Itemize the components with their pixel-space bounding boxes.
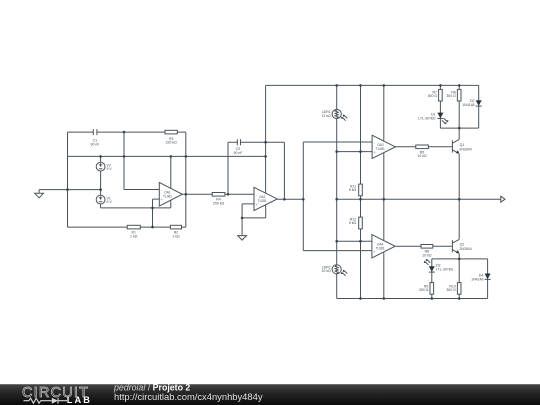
svg-text:-: - — [161, 188, 162, 192]
svg-text:+: + — [374, 151, 376, 155]
svg-text:2N3904: 2N3904 — [459, 247, 471, 251]
svg-text:300 Ω: 300 Ω — [419, 288, 429, 292]
svg-text:TL081: TL081 — [376, 147, 385, 151]
svg-text:+: + — [161, 198, 163, 202]
svg-text:LTL-307EE: LTL-307EE — [436, 267, 454, 271]
svg-text:TL081: TL081 — [163, 194, 172, 198]
svg-text:12 kΩ: 12 kΩ — [321, 114, 331, 118]
svg-text:TL081: TL081 — [376, 246, 385, 250]
svg-text:250 kΩ: 250 kΩ — [213, 201, 225, 205]
svg-text:-: - — [256, 193, 257, 197]
svg-text:9 V: 9 V — [107, 200, 113, 204]
svg-text:LTL-307EE: LTL-307EE — [418, 116, 436, 120]
svg-text:http://circuitlab.com/cx4nynhb: http://circuitlab.com/cx4nynhby484y — [114, 391, 263, 402]
svg-text:1 kΩ: 1 kΩ — [172, 234, 180, 238]
svg-text:2N3904: 2N3904 — [459, 148, 471, 152]
svg-text:5 kΩ: 5 kΩ — [349, 188, 357, 192]
svg-text:Q2: Q2 — [460, 243, 465, 247]
svg-text:10 kΩ: 10 kΩ — [422, 254, 432, 258]
svg-text:9 V: 9 V — [107, 167, 113, 171]
svg-text:-: - — [374, 141, 375, 145]
svg-text:+: + — [256, 203, 258, 207]
svg-text:5 kΩ: 5 kΩ — [349, 221, 357, 225]
svg-text:10 kΩ: 10 kΩ — [417, 154, 427, 158]
svg-text:Q1: Q1 — [460, 143, 465, 147]
svg-text:220 kΩ: 220 kΩ — [166, 141, 178, 145]
svg-text:1N4148: 1N4148 — [471, 278, 483, 282]
svg-text:90 nF: 90 nF — [234, 151, 243, 155]
svg-text:TL081: TL081 — [258, 199, 267, 203]
svg-text:1 kΩ: 1 kΩ — [130, 234, 138, 238]
svg-text:10 kΩ: 10 kΩ — [321, 269, 331, 273]
svg-text:300 Ω: 300 Ω — [428, 94, 438, 98]
svg-text:+: + — [373, 250, 375, 254]
svg-text:LAB: LAB — [67, 395, 92, 405]
svg-text:300 Ω: 300 Ω — [446, 94, 456, 98]
svg-text:90 nF: 90 nF — [91, 143, 100, 147]
svg-text:300 Ω: 300 Ω — [446, 288, 456, 292]
svg-text:1N4148: 1N4148 — [462, 103, 474, 107]
svg-text:-: - — [374, 240, 375, 244]
